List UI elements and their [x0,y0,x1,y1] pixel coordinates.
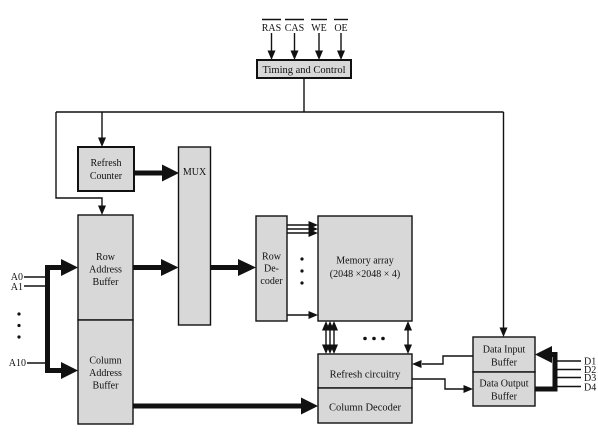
svg-text:RAS: RAS [262,23,281,34]
svg-text:OE: OE [334,23,347,34]
block Row Address Buffer [78,215,133,320]
signal label OE [334,20,348,35]
block Column Address Buffer [78,320,133,424]
svg-text:MUX: MUX [183,167,207,178]
svg-text:D4: D4 [584,383,596,394]
pin A10 [9,358,47,369]
wire Refresh circuitry to Data Output Buffer [412,379,473,393]
address bus [48,259,79,379]
thick arrow MUX to Row Decoder [211,259,257,276]
block Memory array [318,216,412,321]
block Column Decoder [318,388,412,423]
signal label CAS [285,20,304,35]
svg-text:Refresh circuitry: Refresh circuitry [330,370,402,381]
signal label RAS [262,20,281,35]
wire WE to Timing and Control [315,33,323,60]
block Data Output Buffer [473,372,535,406]
svg-text:Buffer: Buffer [491,358,518,369]
address ellipsis [17,312,20,338]
signal label WE [311,20,327,35]
block Data Input Buffer [473,337,535,372]
svg-text:Counter: Counter [90,171,123,182]
svg-text:Row: Row [262,252,282,263]
wire distribution bus horizontal [56,111,504,113]
svg-text:Buffer: Buffer [93,381,120,392]
svg-text:Memory array: Memory array [336,256,393,267]
svg-text:Refresh: Refresh [90,158,121,169]
svg-text:Address: Address [89,265,122,276]
svg-text:Data Output: Data Output [479,379,528,390]
wire Timing and Control to distribution bus [303,78,305,112]
svg-text:WE: WE [311,23,327,34]
svg-text:A1: A1 [11,282,23,293]
wire bus to Refresh Counter [98,112,106,147]
word line ellipsis [300,257,303,284]
wire left rail to Row Address Buffer [56,112,106,215]
wire bus to Data Input Buffer [500,112,508,337]
wire OE to Timing and Control [337,33,345,60]
thick arrow Column Address Buffer to Column Decoder [133,398,318,415]
wire CAS to Timing and Control [291,33,299,60]
svg-text:(2048 ×2048 × 4): (2048 ×2048 × 4) [330,269,400,280]
word line wire bottom Row Decoder to Memory array [287,311,318,319]
block Row Decoder [256,216,287,321]
svg-text:A10: A10 [9,358,26,369]
bit line ellipsis [363,337,385,341]
svg-text:coder: coder [260,276,283,287]
wire RAS to Timing and Control [268,33,276,60]
block MUX [179,147,211,325]
pin A0 [11,272,47,283]
bit line right double arrow [404,321,412,354]
svg-text:CAS: CAS [285,23,304,34]
pin D3 [556,373,596,384]
pin A1 [11,282,47,293]
data bus [535,346,555,389]
block Refresh circuitry [318,354,412,388]
svg-text:De-: De- [264,264,279,275]
block Timing and Control [257,60,351,78]
thick arrow Row Address Buffer to MUX [133,259,179,276]
pin D2 [556,365,596,376]
svg-text:Data Input: Data Input [483,345,526,356]
pin D1 [556,357,596,368]
pin D4 [556,383,596,394]
svg-text:Buffer: Buffer [491,392,518,403]
svg-text:Row: Row [96,252,116,263]
wire Data Input Buffer to Refresh circuitry [412,356,473,368]
thick arrow Refresh Counter to MUX [134,165,179,182]
block Refresh Counter [78,147,134,191]
svg-text:Address: Address [89,368,122,379]
word line wires Row Decoder to Memory array [287,221,318,237]
svg-text:Buffer: Buffer [93,277,120,288]
bit line bundle Memory array to Refresh circuitry [322,321,338,354]
svg-text:Column Decoder: Column Decoder [329,403,402,414]
svg-text:Timing and Control: Timing and Control [262,65,345,76]
svg-text:Column: Column [89,356,121,367]
